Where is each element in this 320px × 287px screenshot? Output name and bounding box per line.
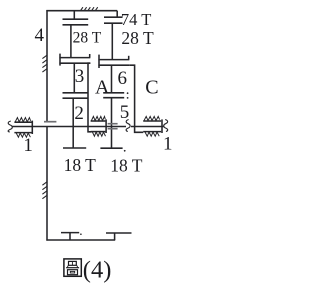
gear 3 (28T) top rim (left mesh lower plate) — [63, 24, 89, 26]
frame link 4: left vertical line — [46, 10, 48, 121]
svg-text:1: 1 — [163, 134, 173, 155]
gear 6 shaft stem (upper) — [111, 23, 113, 60]
gear 6 lower stem — [111, 65, 113, 92]
bearing left: end cap — [31, 121, 33, 134]
svg-text:4: 4 — [35, 25, 45, 46]
shaft break squiggle middle — [126, 120, 130, 132]
gear 5 bottom rim bar — [100, 147, 122, 149]
gear 2 bottom rim bar — [63, 147, 86, 149]
frame link 4: bottom horizontal line — [46, 239, 115, 241]
svg-text:74 T: 74 T — [121, 10, 151, 29]
stem of bottom T-bar — [69, 233, 71, 240]
ring gear 74T top rim plate — [104, 16, 123, 18]
ground hatching above top line — [81, 7, 98, 10]
stem from top line to left upper plate — [73, 11, 75, 20]
svg-text:5: 5 — [120, 102, 130, 123]
svg-text:2: 2 — [74, 103, 84, 124]
bearing left: plates — [14, 121, 31, 123]
bearing left: zigzag top — [15, 118, 30, 122]
caption: hanzi 圖 drawn as strokes — [64, 259, 81, 276]
svg-text:18 T: 18 T — [64, 155, 97, 175]
ground hatching on left line (upper) — [42, 55, 47, 72]
bearing A: zigzag bottom — [92, 132, 105, 136]
dot right of bottom T-bar — [80, 233, 82, 235]
frame riser to ring gear top rim — [116, 11, 118, 18]
gear 2 disc (18T) — [72, 98, 74, 148]
fixed ring bottom rim T-bar — [61, 232, 79, 234]
svg-text:C: C — [145, 77, 158, 99]
shaft break squiggle left end — [8, 121, 12, 132]
caption text (4) — [83, 256, 112, 283]
shaft 1 (left segment) — [12, 126, 127, 128]
svg-text:6: 6 — [118, 68, 128, 89]
dot right of gear 5 bar — [124, 150, 126, 152]
svg-text:28 T: 28 T — [73, 29, 102, 46]
bearing right: zigzag bottom — [145, 132, 159, 136]
gear 6 (28T) top rim plate — [104, 22, 123, 24]
planet pin block on arm C (gear 6 hub) — [98, 55, 100, 68]
bearing A: zigzag top — [91, 116, 105, 120]
ground hatching on left line (lower) — [42, 182, 47, 199]
gear 5 hub sleeve bars — [108, 123, 118, 125]
shaft break squiggle right end — [164, 120, 168, 132]
frame link 4: top horizontal line — [46, 10, 117, 12]
mesh: gear 3 with gear 2 (plates) — [63, 92, 89, 94]
frame riser to ring gear bottom rim — [114, 233, 116, 240]
shaft 1 (right segment) — [131, 126, 165, 128]
bearing right: zigzag top — [144, 116, 160, 120]
bearing A: end cap — [105, 119, 107, 133]
svg-text:28 T: 28 T — [121, 28, 154, 48]
ring gear 74T bottom rim bar — [106, 232, 132, 234]
bearing under arm A: plates — [91, 120, 106, 122]
gear 5 disc (18T) — [111, 98, 113, 149]
frame link 4: left vertical line lower part — [46, 127, 48, 241]
gear 3 shaft stem (upper) — [70, 25, 72, 58]
bearing right: end cap — [161, 119, 163, 133]
svg-text:1: 1 — [23, 135, 33, 156]
svg-text:(4): (4) — [83, 256, 112, 283]
bearing right: plates — [143, 120, 161, 122]
gear 3 lower stem — [73, 63, 75, 92]
bearing left: zigzag bottom — [16, 133, 30, 137]
svg-text:A: A — [95, 76, 110, 98]
arm C link — [129, 65, 143, 132]
fixed ring gear top rim (left mesh upper plate) — [63, 18, 89, 20]
arm A link — [88, 63, 92, 132]
svg-text:3: 3 — [75, 66, 85, 87]
mesh: gear 6 with gear 5 (plates) — [103, 92, 124, 94]
planet pin block on arm A (gear 3 hub) — [59, 54, 61, 66]
link 4 hub bar at shaft crossing — [44, 121, 56, 123]
mesh pitch dots — [127, 92, 129, 99]
svg-text:18 T: 18 T — [110, 156, 143, 176]
